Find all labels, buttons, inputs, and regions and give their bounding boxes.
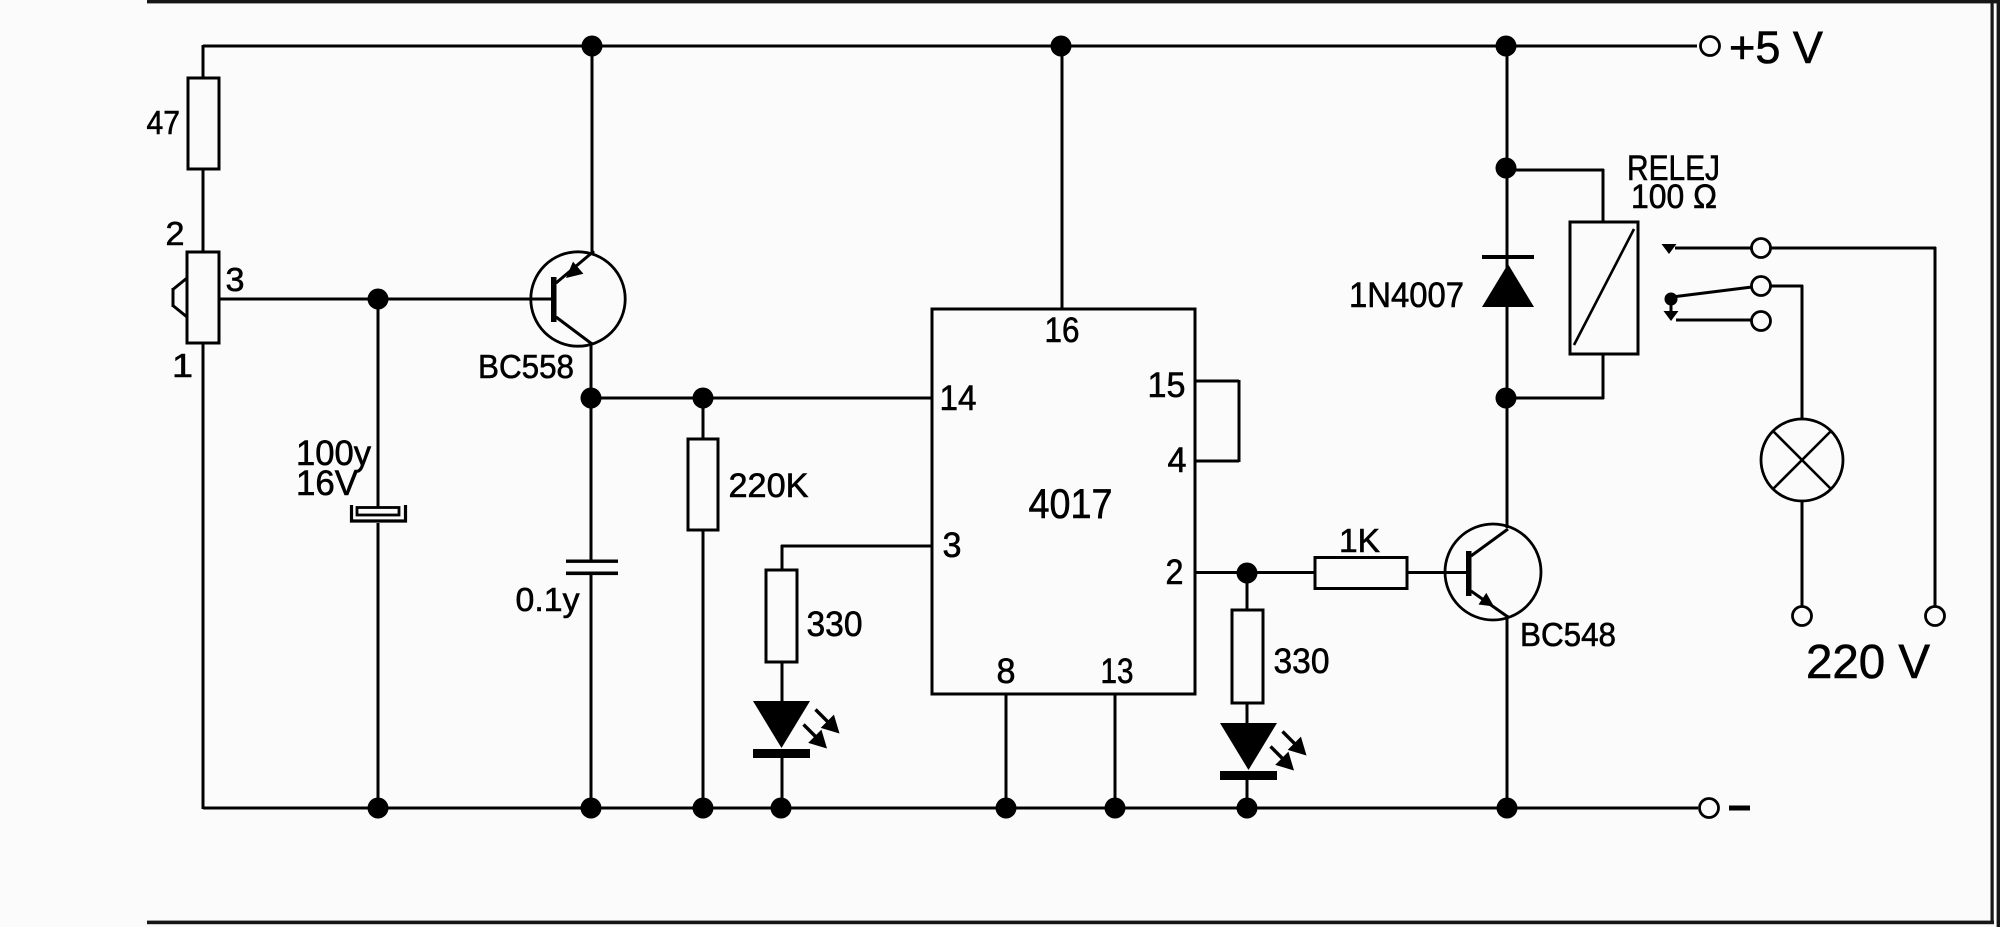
svg-text:2: 2 [1166,553,1184,592]
svg-text:BC548: BC548 [1520,616,1616,653]
svg-text:4: 4 [1168,441,1187,480]
svg-text:2: 2 [166,215,185,252]
svg-text:3: 3 [226,261,245,298]
svg-text:+5 V: +5 V [1729,22,1823,73]
svg-text:16: 16 [1045,311,1080,350]
svg-text:4017: 4017 [1029,480,1113,527]
svg-text:16V: 16V [296,464,359,503]
svg-text:0.1y: 0.1y [516,581,581,618]
svg-text:1: 1 [172,347,193,384]
svg-text:330: 330 [1274,642,1330,681]
svg-text:330: 330 [807,605,863,644]
svg-text:8: 8 [997,652,1016,691]
svg-text:3: 3 [943,526,962,565]
svg-text:14: 14 [940,379,977,418]
svg-text:47: 47 [147,104,181,141]
svg-text:13: 13 [1101,652,1134,691]
svg-text:1N4007: 1N4007 [1349,276,1464,315]
svg-text:15: 15 [1148,366,1186,405]
svg-text:BC558: BC558 [478,348,574,385]
svg-text:100 Ω: 100 Ω [1631,178,1717,216]
svg-text:220 V: 220 V [1806,636,1930,689]
svg-text:1K: 1K [1339,522,1380,559]
svg-text:220K: 220K [729,467,809,505]
